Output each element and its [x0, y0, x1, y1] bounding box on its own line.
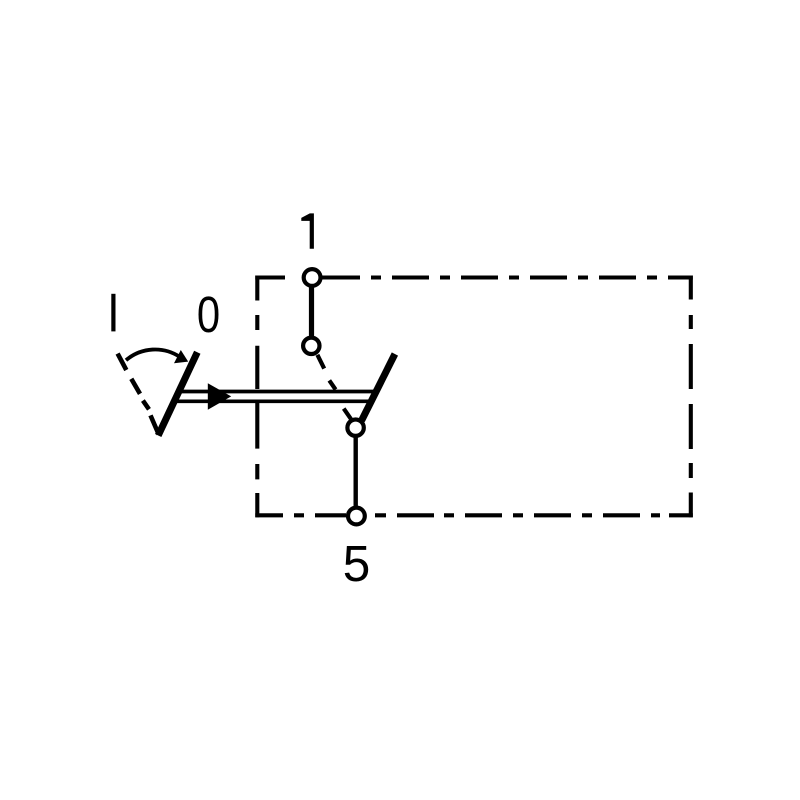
enclosure frame bottom border (dash-dot): [255, 513, 693, 517]
label terminal 1: [301, 213, 314, 248]
coupling motion arrow: [208, 383, 231, 410]
lever pivot circle (node b): [347, 420, 363, 436]
terminal 5 circle: [348, 508, 365, 525]
wire pivot to terminal 5: [354, 435, 358, 510]
actuator lever (solid): [158, 352, 197, 435]
actuation direction arc: [126, 349, 180, 360]
terminal 1 circle: [304, 269, 321, 286]
enclosure frame right border (dash-dot): [689, 276, 693, 518]
svg-text:0: 0: [197, 286, 220, 343]
actuation arc arrowhead: [174, 350, 188, 363]
switch lever (movable contact blade): [362, 354, 395, 421]
mechanical coupling double line: [179, 390, 375, 394]
enclosure frame left border (dash-dot): [255, 276, 259, 518]
moving contact circle (node a): [303, 338, 319, 354]
contact open-position dashed line (node 1 side): [317, 355, 351, 419]
actuator alternate position dashed line: [118, 354, 159, 435]
svg-text:5: 5: [343, 535, 371, 592]
enclosure frame top border (dash-dot): [255, 275, 693, 279]
label position I: [111, 294, 115, 332]
wire terminal 1 to moving contact: [309, 285, 314, 340]
